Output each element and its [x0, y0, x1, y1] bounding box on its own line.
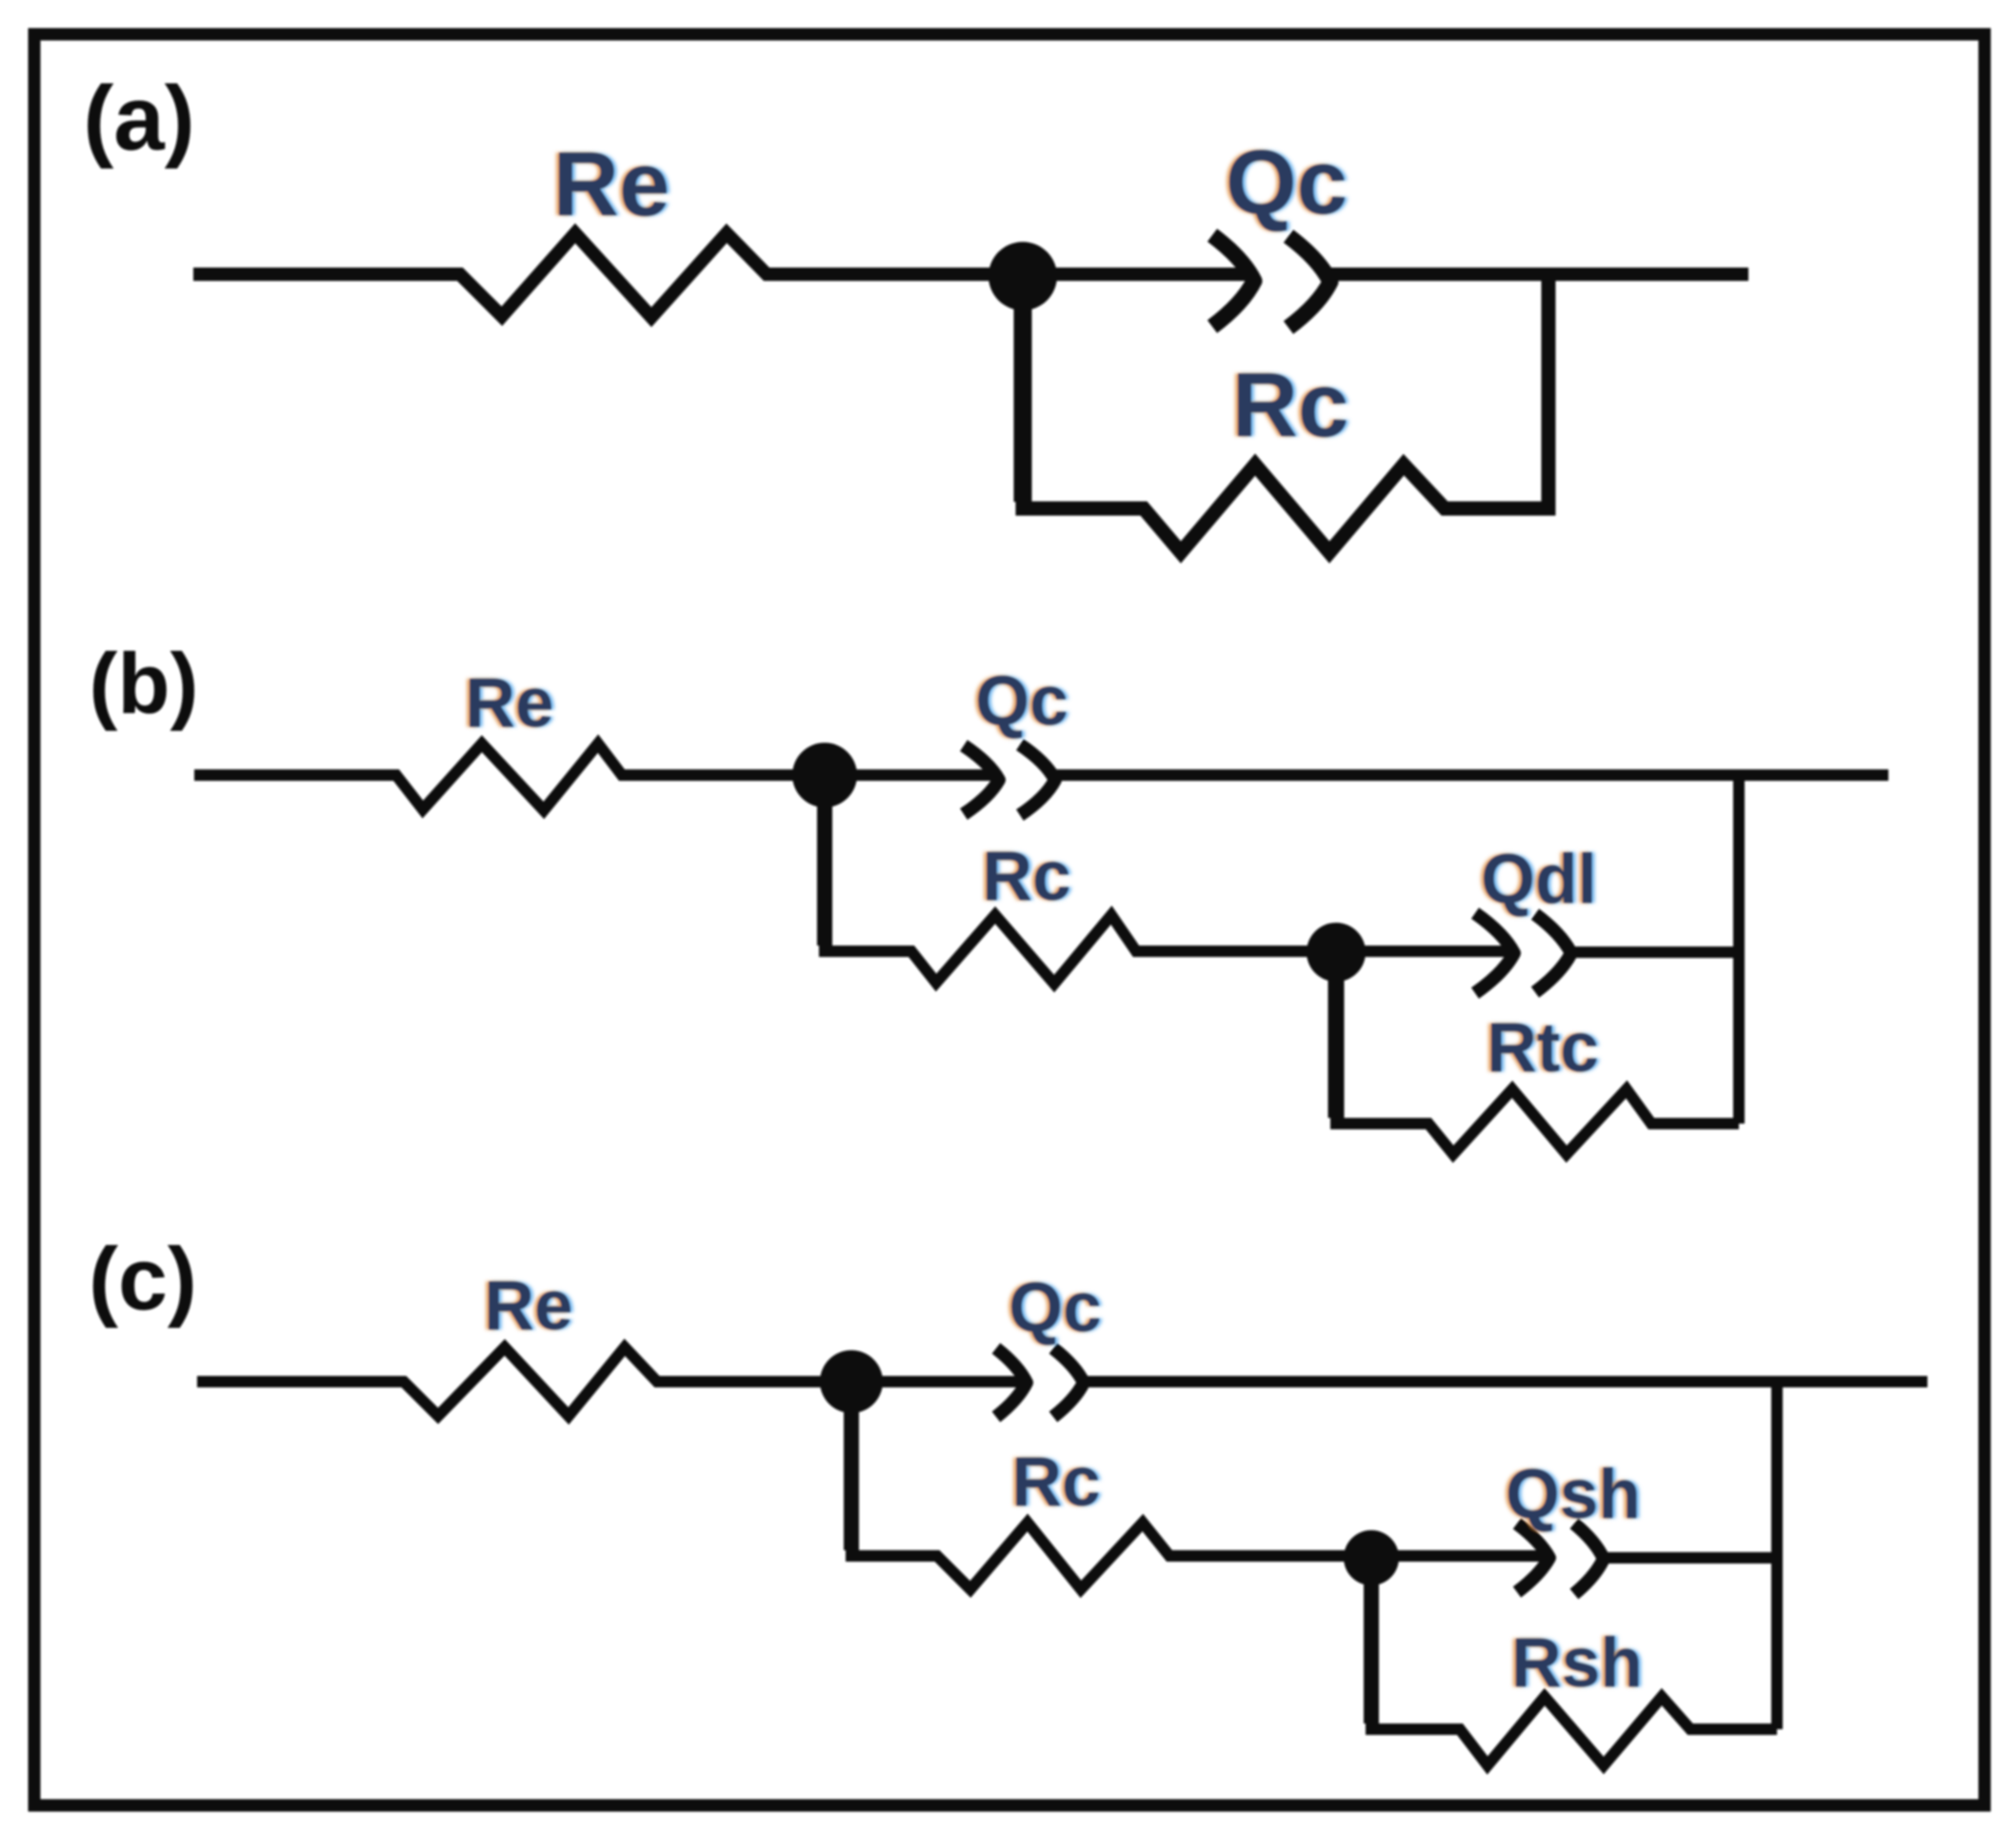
CPE Qdl (panel b) [1475, 913, 1571, 993]
resistor Rsh bottom loop (panel c) [1371, 1558, 1777, 1765]
svg-text:Re: Re [465, 665, 553, 742]
svg-text:Qc: Qc [1226, 131, 1347, 233]
CPE Qc (panel a, double chevron) [1212, 235, 1330, 328]
wire (right segment, panel a) [1330, 268, 1748, 281]
resistor Rc parallel loop (panel a) [1023, 274, 1548, 552]
node 2 (panel b) [1307, 923, 1366, 982]
node A (junction, panel a) [988, 242, 1057, 310]
svg-text:Qsh: Qsh [1506, 1456, 1641, 1533]
svg-text:Rsh: Rsh [1511, 1624, 1643, 1702]
svg-text:(a): (a) [83, 68, 194, 169]
wire (right of Qsh, panel c) [1604, 1552, 1777, 1564]
svg-text:Qdl: Qdl [1481, 841, 1597, 918]
node 1 (panel b) [792, 743, 857, 807]
right vertical wire (panel c) [1771, 1382, 1783, 1729]
middle branch with resistor Rc (panel c) [851, 1382, 1549, 1589]
svg-text:Rc: Rc [982, 838, 1070, 915]
wire with resistor Re (left segment, panel a) [193, 233, 1254, 317]
wire with resistor Re (panel b) [194, 744, 999, 810]
resistor Rtc bottom loop (panel b) [1336, 952, 1739, 1154]
CPE Qc (panel b) [964, 745, 1055, 815]
svg-text:Qc: Qc [975, 663, 1068, 740]
node 2 (panel c) [1344, 1530, 1399, 1585]
wire with resistor Re (panel c) [197, 1347, 1027, 1416]
node 2 stub (panel c) [1364, 1558, 1379, 1723]
right vertical wire (panel b) [1733, 775, 1745, 1124]
svg-text:Re: Re [553, 133, 670, 235]
svg-text:Rc: Rc [1232, 354, 1349, 456]
wire (right of Qc, panel c) [1084, 1376, 1927, 1387]
node 1 stub (panel c) [844, 1382, 859, 1550]
node 2 stub (panel b) [1328, 952, 1345, 1118]
wire (right of Qdl, panel b) [1571, 946, 1739, 958]
CPE Qsh (panel c) [1517, 1524, 1604, 1594]
svg-text:Rtc: Rtc [1487, 1009, 1599, 1086]
wire (right of Qc, panel b) [1055, 769, 1888, 781]
svg-text:(c): (c) [89, 1229, 197, 1328]
node stub (panel a) [1014, 276, 1032, 502]
node 1 (panel c) [820, 1350, 883, 1413]
CPE Qc (panel c) [996, 1348, 1084, 1417]
node 1 stub (panel b) [817, 775, 832, 946]
svg-text:Rc: Rc [1011, 1444, 1100, 1521]
middle branch with resistor Rc (panel b) [825, 775, 1514, 984]
svg-text:(b): (b) [90, 637, 199, 732]
svg-text:Re: Re [484, 1267, 572, 1345]
svg-text:Qc: Qc [1008, 1269, 1101, 1346]
